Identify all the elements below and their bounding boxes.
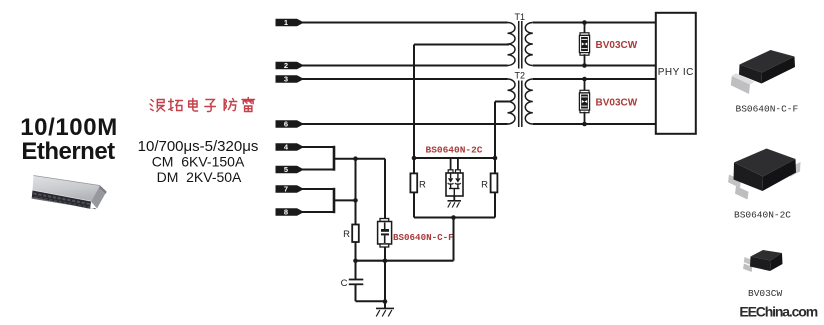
transformer T1 secondary winding — [525, 23, 533, 66]
ethernet switch photo — [32, 176, 107, 210]
wire R1 to bottom rail — [355, 242, 357, 261]
junction ground node — [383, 299, 388, 304]
svg-text:PHY IC: PHY IC — [658, 67, 694, 78]
svg-text:BS0640N-2C: BS0640N-2C — [734, 210, 791, 221]
wire R3 to mid bottom rail — [494, 192, 496, 217]
svg-text:BS0640N-C-F: BS0640N-C-F — [393, 232, 454, 243]
spec line 1 — [138, 138, 259, 155]
ground symbol TVS — [448, 201, 462, 208]
transformer T2 primary winding — [508, 79, 516, 124]
wire to TVS diode D1 — [584, 23, 586, 34]
pin 8 connector — [276, 208, 305, 217]
junction mid-left — [412, 156, 417, 161]
wire mid bottom to bottom rail — [453, 218, 455, 261]
wire rail down to capacitor C — [355, 261, 357, 279]
wire T2 center tap — [495, 101, 509, 103]
svg-text:DM 2KV-50A: DM 2KV-50A — [157, 169, 242, 185]
label BV03CW D2 — [596, 98, 638, 109]
svg-text:7: 7 — [284, 185, 288, 194]
pin 2 connector — [276, 61, 305, 70]
wire TVS center pin to ground — [453, 196, 455, 201]
wire stub TVS right pin — [457, 158, 459, 170]
wire stub TVS left pin — [450, 158, 452, 170]
junction BV03CW D1 bottom — [582, 63, 587, 68]
svg-text:10/700μs-5/320μs: 10/700μs-5/320μs — [138, 138, 259, 155]
TVS diode D2 (BV03CW) — [579, 90, 589, 112]
svg-text:BS0640N-C-F: BS0640N-C-F — [736, 104, 799, 115]
label BS0640N-C-F (schematic) — [393, 232, 454, 243]
label C — [341, 278, 348, 289]
TVS diode D1 (BV03CW) — [579, 33, 589, 55]
junction BV03CW D2 top — [582, 77, 587, 82]
gas discharge tube GD1 body — [378, 222, 392, 245]
svg-text:R: R — [419, 180, 426, 191]
label BV03CW (photo) — [748, 288, 783, 299]
svg-text:BS0640N-2C: BS0640N-2C — [426, 145, 483, 156]
wire T1 bottom to PHY IC — [533, 65, 655, 67]
wire gas tube GD1 to ground — [384, 247, 386, 302]
transformer T1 label — [515, 12, 526, 22]
resistor R1 — [352, 225, 359, 243]
join bar pins 4-5 — [333, 146, 336, 171]
svg-text:BV03CW: BV03CW — [748, 288, 783, 299]
wire T1 center tap — [414, 44, 509, 46]
label R1 — [343, 229, 350, 240]
wire node A down to R1 — [355, 159, 357, 225]
transformer T2 core — [519, 81, 522, 128]
wire to R2 — [413, 158, 415, 174]
TVS array D1 body — [446, 173, 463, 196]
svg-text:EEChina.com: EEChina.com — [739, 304, 817, 320]
chinese title 浪拓电子防雷 (drawn strokes) — [150, 98, 254, 112]
TVS array D1 (BS0640N-2C) left terminal cap — [448, 170, 453, 173]
wire capacitor C to ground line — [355, 284, 357, 301]
transformer T2 label — [515, 71, 526, 81]
junction node A — [353, 156, 358, 161]
wire T2 center tap down — [494, 102, 496, 159]
wire node A down to gas tube GD1 — [384, 159, 386, 219]
label PHY IC — [658, 67, 694, 78]
transformer T2 secondary winding — [525, 79, 533, 124]
component photo BS0640N-C-F package — [731, 50, 795, 94]
wire mid bottom rail — [414, 217, 495, 219]
label BV03CW D1 — [596, 40, 638, 51]
junction mid bottom — [451, 215, 456, 220]
wire to TVS diode D2 — [584, 79, 586, 91]
title 10/100M — [20, 114, 118, 141]
pin 7 connector — [276, 185, 305, 194]
svg-text:R: R — [481, 180, 488, 191]
wire pin8 to join bar — [302, 211, 333, 213]
junction node A rail — [353, 258, 358, 263]
pin 6 connector — [276, 120, 305, 129]
pin 5 connector — [276, 165, 305, 174]
gas discharge tube GD1 (BS0640N-C-F) top cap — [380, 219, 389, 222]
wire node pins4-5 to gas tube — [334, 158, 385, 160]
junction BV03CW D1 top — [582, 20, 587, 25]
label R2 — [419, 180, 426, 191]
svg-text:T2: T2 — [515, 71, 526, 81]
wire pin4 to join bar — [302, 146, 333, 148]
component photo BS0640N-2C package — [728, 149, 801, 200]
pin 1 connector — [276, 18, 305, 27]
capacitor C — [349, 280, 364, 285]
junction BV03CW D2 bottom — [582, 122, 587, 127]
wire pin6 to T2 bottom — [302, 123, 508, 125]
resistor R3 — [491, 173, 498, 192]
wire TVS diode D2 down — [584, 112, 586, 124]
ground symbol main — [376, 302, 394, 317]
wire TVS diode D1 down — [584, 54, 586, 65]
junction node B — [353, 198, 358, 203]
wire T2 bottom to PHY IC — [533, 123, 655, 125]
bottom rail wire — [356, 260, 454, 262]
spec line 2 — [152, 154, 245, 170]
label R3 — [481, 180, 488, 191]
label BS0640N-2C (schematic) — [426, 145, 483, 156]
pin 4 connector — [276, 143, 305, 152]
wire pin2 to T1 bottom — [302, 65, 508, 67]
spec line 3 — [157, 169, 242, 185]
svg-text:6: 6 — [284, 120, 288, 129]
component photo BV03CW package — [743, 250, 782, 272]
wire to ground junction — [356, 300, 386, 302]
wire pin7 to join bar — [302, 188, 333, 190]
wire pin3 to T2 top — [302, 78, 508, 80]
svg-text:8: 8 — [284, 208, 288, 217]
svg-text:1: 1 — [284, 18, 288, 27]
label BS0640N-2C (photo) — [734, 210, 791, 221]
svg-text:T1: T1 — [515, 12, 526, 22]
svg-text:BV03CW: BV03CW — [596, 98, 638, 109]
wire R2 to mid bottom rail — [413, 192, 415, 217]
wire T2 top to PHY IC — [533, 78, 655, 80]
PHY IC U1 box — [656, 13, 696, 134]
wire pin1 to T1 top — [302, 22, 508, 24]
pin 3 connector — [276, 75, 305, 84]
wire node pins7-8 to node — [334, 199, 356, 201]
gas discharge tube GD1 bottom cap — [380, 244, 389, 247]
transformer T1 core — [519, 21, 522, 69]
junction gas tube on bottom rail — [383, 258, 388, 263]
svg-text:BV03CW: BV03CW — [596, 40, 638, 51]
wire T1 top to PHY IC — [533, 22, 655, 24]
resistor R2 — [410, 173, 417, 192]
label BS0640N-C-F (photo) — [736, 104, 799, 115]
svg-text:2: 2 — [284, 61, 288, 70]
wire pin5 to join bar — [302, 169, 333, 171]
title Ethernet — [21, 138, 115, 165]
svg-text:R: R — [343, 229, 350, 240]
join bar pins 7-8 — [333, 188, 336, 213]
transformer T1 primary winding — [508, 23, 516, 66]
TVS array D1 right terminal cap — [456, 170, 461, 173]
wire to R3 — [494, 158, 496, 174]
svg-text:C: C — [341, 278, 348, 289]
wire mid top rail — [414, 157, 495, 159]
svg-text:10/100M: 10/100M — [20, 114, 118, 141]
svg-text:Ethernet: Ethernet — [21, 138, 115, 165]
svg-text:CM 6KV-150A: CM 6KV-150A — [152, 154, 245, 170]
junction mid-right — [493, 156, 498, 161]
svg-text:5: 5 — [284, 165, 288, 174]
logo EEChina.com — [739, 304, 817, 320]
svg-text:3: 3 — [284, 75, 288, 84]
wire T1 center tap down — [413, 45, 415, 159]
